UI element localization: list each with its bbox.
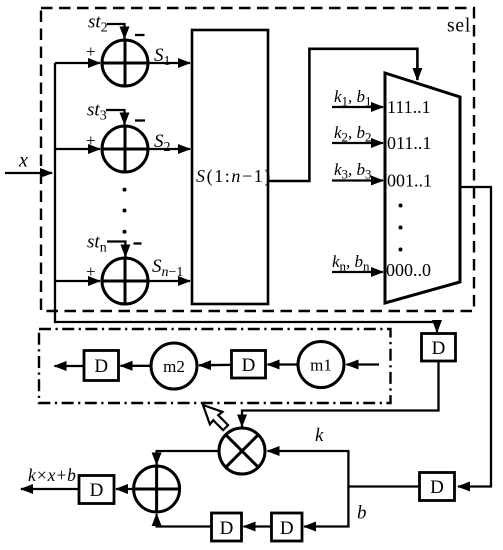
svg-text:D: D bbox=[94, 356, 108, 377]
svg-text:D: D bbox=[242, 355, 256, 376]
svg-text:x: x bbox=[18, 150, 28, 172]
svg-text:k2, b2: k2, b2 bbox=[334, 123, 372, 145]
svg-text:S2: S2 bbox=[154, 131, 171, 155]
svg-text:k×x+b: k×x+b bbox=[28, 465, 76, 485]
svg-text:b: b bbox=[357, 503, 367, 524]
svg-text:D: D bbox=[90, 480, 104, 501]
svg-text:011..1: 011..1 bbox=[387, 133, 431, 153]
svg-text:st2: st2 bbox=[88, 12, 108, 36]
svg-text:k3, b3: k3, b3 bbox=[334, 160, 372, 182]
svg-text:m2: m2 bbox=[163, 357, 185, 376]
svg-text:+: + bbox=[86, 262, 96, 281]
svg-text:111..1: 111..1 bbox=[387, 97, 431, 117]
svg-text:D: D bbox=[280, 518, 294, 539]
svg-text:S1: S1 bbox=[154, 45, 171, 69]
svg-text:Sn−1: Sn−1 bbox=[152, 256, 183, 280]
svg-text:stn: stn bbox=[87, 232, 107, 256]
svg-text:k: k bbox=[315, 425, 324, 446]
svg-text:001..1: 001..1 bbox=[387, 171, 432, 191]
svg-text:D: D bbox=[432, 338, 446, 359]
svg-text:m1: m1 bbox=[310, 356, 332, 375]
svg-text:+: + bbox=[86, 42, 96, 61]
svg-text:sel: sel bbox=[447, 16, 471, 37]
svg-text:st3: st3 bbox=[87, 100, 107, 124]
svg-text:000..0: 000..0 bbox=[386, 260, 431, 280]
svg-text:D: D bbox=[430, 477, 444, 498]
svg-text:+: + bbox=[86, 131, 96, 150]
svg-text:D: D bbox=[220, 518, 234, 539]
svg-text:kn, bn: kn, bn bbox=[332, 252, 370, 274]
svg-text:k1, b1: k1, b1 bbox=[334, 87, 372, 109]
svg-text:S(1:n−1): S(1:n−1) bbox=[196, 166, 272, 187]
